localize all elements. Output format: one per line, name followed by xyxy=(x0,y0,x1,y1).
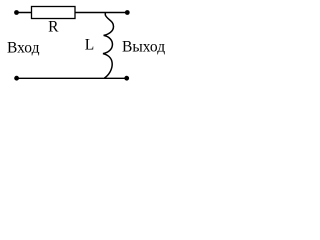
svg-text:Выход: Выход xyxy=(122,39,165,56)
inductor L xyxy=(103,13,114,79)
wire: top rail from input terminal to output terminal xyxy=(17,12,128,14)
resistor R xyxy=(32,7,76,19)
svg-text:Вход: Вход xyxy=(7,40,40,57)
node: output bottom terminal xyxy=(124,76,129,81)
wire: bottom rail from input terminal to output terminal xyxy=(17,77,127,79)
node: input bottom terminal xyxy=(14,76,19,81)
svg-text:L: L xyxy=(85,36,94,53)
node: input top terminal xyxy=(14,10,19,15)
node: output top terminal xyxy=(125,10,130,15)
svg-text:R: R xyxy=(48,18,59,35)
